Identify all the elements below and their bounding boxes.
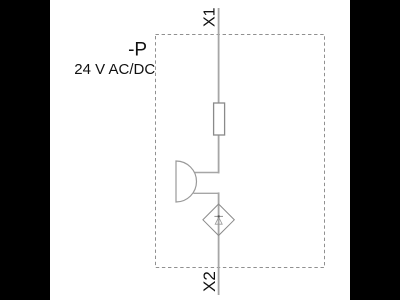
buzzer B1 (half-disc sounder): [176, 161, 196, 202]
svg-text:24 V AC/DC: 24 V AC/DC: [74, 61, 155, 78]
wire: down through LED diamond to X2 lead: [218, 192, 220, 295]
LED indicator diamond: [203, 204, 234, 236]
enclosure dashed boundary box: [156, 35, 325, 268]
white drawing sheet: [50, 0, 350, 300]
LED anode triangle: [215, 217, 222, 224]
wire: resistor to corner above buzzer branch: [218, 135, 220, 173]
junction dot on LED bar: [218, 215, 220, 217]
wire: horizontal from buzzer bottom terminal: [194, 192, 220, 194]
svg-text:X2: X2: [200, 271, 219, 292]
svg-text:X1: X1: [201, 7, 218, 27]
left transparent margin (renders black): [0, 0, 50, 300]
right transparent margin (renders black): [350, 0, 400, 300]
svg-text:-P: -P: [128, 39, 147, 60]
wire: horizontal into buzzer top terminal: [194, 172, 220, 174]
LED cathode bar: [214, 215, 223, 217]
resistor R1: [214, 103, 225, 135]
wire: X1 lead down to resistor: [218, 8, 220, 103]
